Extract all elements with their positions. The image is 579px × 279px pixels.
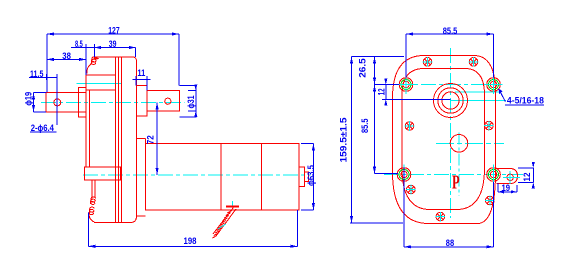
dimension 26.5 <box>352 57 405 85</box>
dimension 85.5 top <box>406 34 494 78</box>
dimension 11.5 <box>29 74 57 125</box>
svg-text:88: 88 <box>446 238 454 248</box>
dimension 85.5 left <box>375 85 400 174</box>
svg-text:P: P <box>452 171 460 194</box>
svg-text:2-ϕ6.4: 2-ϕ6.4 <box>31 123 54 133</box>
motor end boss <box>299 167 305 187</box>
gearbox upper boss <box>86 75 115 90</box>
housing outer outline <box>393 56 496 224</box>
output boss circles <box>434 84 468 118</box>
screw lower-left <box>407 185 416 194</box>
centerline vertical main <box>450 48 452 218</box>
centerline motor axis <box>83 174 311 176</box>
top spring coil <box>87 57 97 74</box>
mounting hole side-right <box>487 165 501 185</box>
svg-text:85.5: 85.5 <box>360 119 370 134</box>
right side tab <box>497 169 518 184</box>
breather hole <box>450 135 468 153</box>
input shaft hub flange <box>79 88 87 118</box>
dimension 38 <box>47 58 86 60</box>
centerline side holes <box>384 174 523 176</box>
gearbox plate lines <box>115 57 121 223</box>
svg-text:72: 72 <box>145 135 155 144</box>
label 2-phi6.4 <box>30 131 57 133</box>
motor end stub <box>305 172 309 182</box>
dimension 8.5 and 39 <box>71 44 135 75</box>
cross hole 6.4 <box>54 99 61 106</box>
housing inner outline <box>402 69 485 210</box>
screw mid-right <box>485 121 494 130</box>
centerline top holes <box>396 84 502 86</box>
svg-text:ϕ63.5: ϕ63.5 <box>306 165 316 186</box>
dimension 198 <box>88 210 297 246</box>
bottom spring coil 1 <box>90 197 95 205</box>
centerline small circle vertical <box>458 133 460 197</box>
svg-text:38: 38 <box>62 51 71 61</box>
centerline small circle horizontal <box>436 142 504 144</box>
svg-text:26.5: 26.5 <box>357 58 367 78</box>
motor front ledge <box>137 139 146 216</box>
dimension 12 left <box>382 85 451 100</box>
output shaft hole <box>165 98 171 104</box>
dimension 19 <box>498 183 517 192</box>
dimension phi31 bracket <box>179 86 196 118</box>
svg-text:85.5: 85.5 <box>443 26 458 36</box>
centerline aux <box>455 91 501 93</box>
gearbox cover left wall <box>86 90 95 199</box>
motor body <box>145 139 299 210</box>
svg-text:198: 198 <box>184 236 197 246</box>
svg-text:19: 19 <box>502 183 511 193</box>
weld mark bar <box>226 205 239 207</box>
svg-text:39: 39 <box>109 39 117 49</box>
tab hole <box>507 174 513 180</box>
gearbox top edge with corner <box>94 57 137 223</box>
centerline boss horizontal <box>451 100 507 102</box>
tab hole centerlines <box>503 171 520 184</box>
svg-text:ϕ31: ϕ31 <box>186 96 196 109</box>
svg-text:12: 12 <box>377 88 387 95</box>
dimension 11 output hub <box>133 76 151 90</box>
screw top-right <box>469 58 478 67</box>
label 4-5/16-18 <box>499 89 545 105</box>
svg-text:11: 11 <box>137 68 145 78</box>
output hub <box>137 86 147 116</box>
dimension phi63.5 <box>301 144 314 210</box>
centerline idler gear <box>77 83 122 85</box>
weld mark cyan tick <box>218 201 233 229</box>
svg-text:11.5: 11.5 <box>30 69 43 79</box>
weld mark hatched stem <box>213 207 237 238</box>
dimension 127 <box>47 34 179 93</box>
svg-text:ϕ19: ϕ19 <box>24 92 34 106</box>
mounting hole top-left <box>397 75 415 94</box>
svg-text:8.5: 8.5 <box>75 39 83 49</box>
top coil arrowhead <box>94 56 100 60</box>
screw mid-left <box>405 122 414 131</box>
svg-text:127: 127 <box>108 26 120 36</box>
dimension 159.5 <box>350 57 403 223</box>
centerline main output shaft <box>41 101 185 103</box>
screw top-left <box>423 58 432 67</box>
dimension 88 <box>404 168 494 247</box>
dimension 12 right tab <box>518 168 534 183</box>
motor pinion shaft into gearbox <box>85 167 121 180</box>
screw lower-right <box>486 196 495 205</box>
svg-text:4-5/16-18: 4-5/16-18 <box>507 96 544 106</box>
bottom spring coil 2 <box>89 207 95 222</box>
output shaft <box>147 90 180 111</box>
left input shaft <box>46 93 86 112</box>
svg-text:159.5±1.5: 159.5±1.5 <box>338 118 348 163</box>
svg-text:12: 12 <box>522 173 532 182</box>
mounting hole side-left <box>397 165 411 185</box>
mounting hole top-right <box>485 75 503 94</box>
dimension phi19 <box>34 93 47 112</box>
screw bottom-center <box>436 212 445 221</box>
dimension 72 <box>156 102 158 174</box>
